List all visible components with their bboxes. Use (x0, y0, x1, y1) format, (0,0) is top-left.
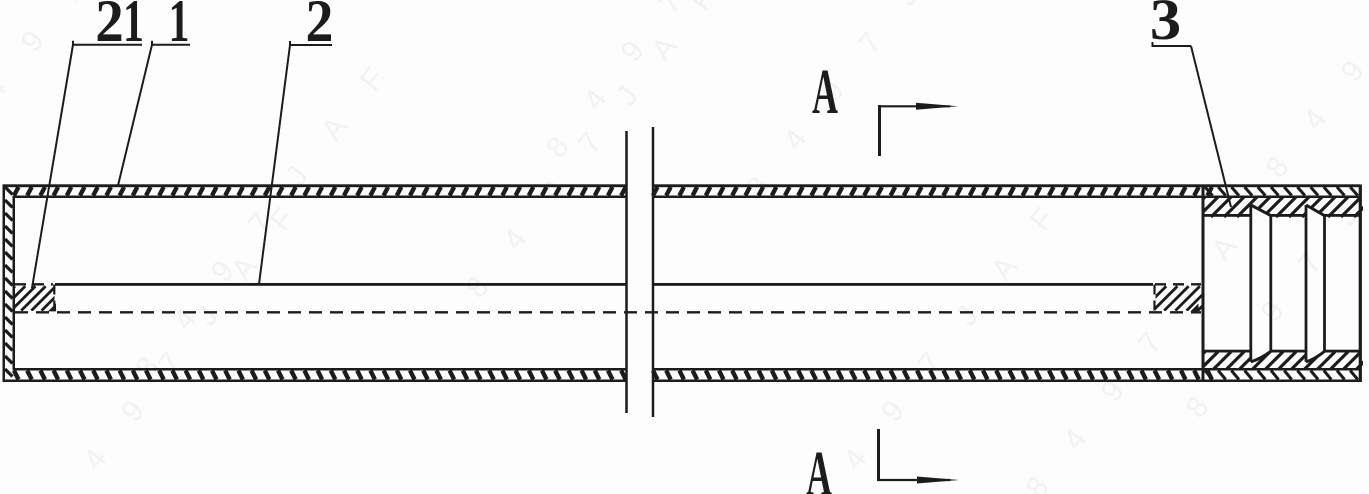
svg-text:A: A (806, 438, 832, 494)
retaining wedge 21: dashed top edge (15, 283, 53, 285)
label 21 leader (32, 41, 142, 288)
retaining wedge 21: right dashed edge (53, 285, 55, 313)
section cut symbol top (878, 103, 958, 156)
right retaining wedge: left dashed edge (1153, 285, 1155, 313)
top tooth 1 flank (1251, 205, 1271, 216)
label 1 leader (118, 41, 190, 186)
inner rod top line (element 2), right of break (653, 283, 1153, 286)
coupling bottom thick band hatch (1188, 352, 1369, 369)
coupling right end face (1359, 185, 1362, 383)
coupling top thick band hatch (1185, 197, 1369, 217)
label 3 leader (1153, 42, 1232, 207)
svg-text:8 4 9 7 J A F: 8 4 9 7 J A F (460, 0, 733, 304)
coupling interior thread root verticals (1249, 205, 1252, 362)
svg-text:A: A (812, 56, 838, 128)
retaining wedge 21: corner chamfer (48, 303, 56, 311)
tube left end wall (3, 185, 16, 383)
tube top wall, right segment (653, 184, 1369, 198)
break line left (625, 131, 628, 413)
svg-text:1: 1 (169, 0, 190, 55)
svg-text:8 4 9 7 J A F: 8 4 9 7 J A F (800, 188, 1073, 494)
svg-text:8 4 9 7 J A F: 8 4 9 7 J A F (740, 0, 1013, 204)
right retaining wedge: hatch (1131, 286, 1223, 310)
svg-text:3: 3 (1150, 0, 1181, 52)
svg-text:8 4 9 7 J A F: 8 4 9 7 J A F (1260, 0, 1369, 184)
section cut symbol bottom (877, 429, 959, 484)
coupling left end face (1202, 186, 1205, 382)
label 2 leader (259, 41, 332, 284)
break line right (652, 127, 655, 417)
coupling top band bottom line segments (1202, 214, 1251, 217)
bottom tooth 1 flank (1251, 351, 1271, 361)
bottom tooth 2 flank (1306, 351, 1325, 361)
tube outer shell: top wall (element 1), left segment (3, 184, 627, 198)
retaining wedge 21: hatch (0, 286, 76, 310)
coupling bottom band top line segments (1202, 350, 1251, 353)
tube bottom wall, right segment (653, 368, 1369, 382)
svg-text:2: 2 (95, 0, 123, 54)
svg-text:8 4 9 7 J A F: 8 4 9 7 J A F (40, 188, 313, 494)
top tooth 2 flank (1306, 205, 1325, 216)
right retaining wedge: corner chamfer (1191, 303, 1199, 311)
right retaining wedge: dashed top edge (1155, 283, 1201, 285)
rod hidden centreline (dashed) (15, 311, 1201, 313)
inner rod top line (element 2), left of break (55, 283, 627, 286)
tube bottom wall, left segment (3, 368, 627, 382)
svg-text:1: 1 (123, 0, 144, 55)
svg-text:2: 2 (306, 0, 334, 54)
